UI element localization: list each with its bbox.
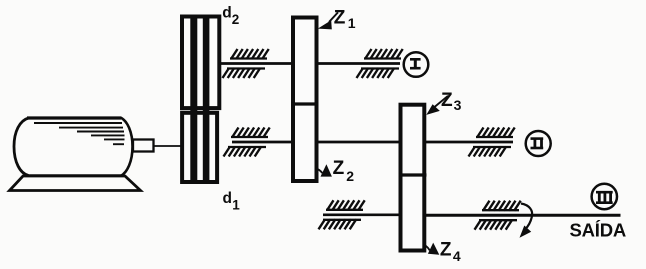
svg-text:1: 1 <box>348 15 356 31</box>
circle II <box>526 131 551 156</box>
motor base <box>10 176 141 191</box>
motor M body <box>14 118 133 177</box>
svg-text:1: 1 <box>232 197 240 212</box>
pulley d2 <box>182 17 219 109</box>
label Z1 arrow <box>318 12 338 29</box>
svg-text:Z: Z <box>333 158 345 179</box>
label Z2 arrow <box>316 164 332 176</box>
label Z4 arrow <box>426 243 440 255</box>
shaft I <box>219 62 400 65</box>
motor shaft stub <box>133 140 154 152</box>
bearing shaft III left <box>319 200 365 229</box>
motor to pulley wire <box>153 145 181 147</box>
bearing shaft III right <box>475 201 521 230</box>
svg-text:SAÍDA: SAÍDA <box>570 220 627 241</box>
label Z3 <box>441 90 462 113</box>
svg-text:4: 4 <box>453 248 461 264</box>
shaft III <box>323 213 621 216</box>
bearing shaft II left <box>224 128 270 157</box>
gear block Z1 Z2 <box>291 18 318 182</box>
svg-text:d: d <box>223 190 232 207</box>
motor cooling hatch lines <box>34 123 125 144</box>
svg-text:3: 3 <box>454 97 462 113</box>
label d1 <box>223 190 241 213</box>
label d2 <box>222 4 239 27</box>
label Z3 arrow <box>426 96 448 115</box>
bearing shaft I left <box>223 49 269 78</box>
svg-text:Z: Z <box>440 240 452 261</box>
pulley d1 <box>182 113 217 182</box>
circle III <box>592 184 617 209</box>
svg-text:Z: Z <box>441 90 453 111</box>
rotation arrow shaft III <box>520 204 533 238</box>
bearing shaft I right <box>357 49 403 78</box>
svg-text:d: d <box>222 4 231 21</box>
shaft II <box>232 141 513 144</box>
svg-text:2: 2 <box>346 168 354 184</box>
svg-text:Z: Z <box>334 8 346 29</box>
gear block Z3 Z4 <box>399 105 427 251</box>
label Z2 <box>333 158 355 184</box>
label Z4 <box>440 240 461 264</box>
circle I <box>404 52 429 77</box>
belt line right <box>203 18 210 182</box>
belt line left <box>190 18 197 182</box>
label Z1 <box>334 8 356 31</box>
svg-text:2: 2 <box>232 12 240 27</box>
bearing shaft II right <box>469 128 515 157</box>
